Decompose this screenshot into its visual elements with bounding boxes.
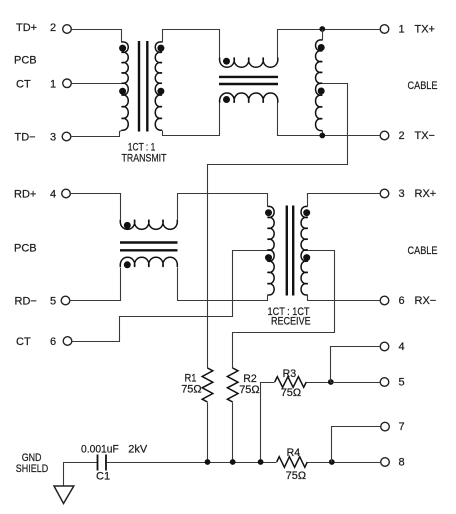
svg-text:TX+: TX+ bbox=[415, 23, 435, 35]
phase dot T1 primary lower bbox=[119, 88, 126, 95]
svg-text:6: 6 bbox=[398, 295, 404, 307]
svg-text:RD+: RD+ bbox=[14, 189, 36, 201]
terminal 1 TX+ bbox=[380, 25, 389, 34]
terminal 2 TX- bbox=[380, 131, 389, 140]
wire T3 secondary bottom to RX- bbox=[308, 296, 381, 301]
junction node R1 on bus bbox=[205, 459, 211, 465]
phase dot T3 primary lower bbox=[265, 254, 272, 261]
svg-text:PCB: PCB bbox=[14, 55, 37, 67]
svg-text:75Ω: 75Ω bbox=[181, 384, 201, 396]
junction node R3 on bus bbox=[258, 459, 264, 465]
svg-text:7: 7 bbox=[398, 421, 404, 433]
svg-text:PCB: PCB bbox=[14, 242, 37, 254]
ground bus bbox=[107, 462, 277, 464]
phase dot T1 secondary lower bbox=[157, 88, 164, 95]
svg-text:75Ω: 75Ω bbox=[286, 470, 306, 482]
svg-text:1: 1 bbox=[50, 79, 56, 91]
terminal 8 cable bbox=[381, 458, 390, 467]
wire RD- to CM2 bottom bbox=[70, 268, 121, 301]
junction node R2 on bus bbox=[230, 459, 236, 465]
svg-text:TD−: TD− bbox=[15, 131, 36, 143]
terminal 5 cable bbox=[380, 378, 389, 387]
terminal 7 cable bbox=[381, 422, 390, 431]
ground symbol bbox=[54, 486, 74, 504]
svg-text:1CT : 1: 1CT : 1 bbox=[128, 141, 156, 153]
phase dot T3 secondary upper bbox=[303, 209, 310, 216]
phase dot T1 primary upper bbox=[119, 45, 126, 52]
wire CM1 top to terminal TX+ bbox=[278, 30, 381, 58]
wire TD+ to T1 primary bbox=[72, 30, 122, 43]
wire R2 bottom to bus bbox=[232, 403, 234, 463]
wire CM2 top to T3 primary top bbox=[178, 194, 268, 220]
svg-text:TX−: TX− bbox=[415, 130, 435, 142]
svg-text:C1: C1 bbox=[96, 470, 110, 482]
transformer T2 lower half bbox=[316, 83, 323, 130]
terminal 4 cable bbox=[380, 342, 389, 351]
svg-text:75Ω: 75Ω bbox=[281, 387, 301, 399]
svg-text:TD+: TD+ bbox=[16, 22, 37, 34]
svg-text:RD−: RD− bbox=[15, 296, 37, 308]
terminal 3 RX+ bbox=[380, 189, 389, 198]
wire T1 secondary top to CM1 bbox=[163, 30, 220, 58]
wire R3 right to junction bbox=[307, 382, 331, 384]
choke CM2 bottom winding bbox=[120, 257, 177, 267]
terminal 3 TD- bbox=[62, 132, 71, 141]
transformer T1 primary upper half bbox=[122, 42, 129, 84]
transformer T2 upper half bbox=[316, 40, 323, 84]
svg-text:1: 1 bbox=[398, 23, 404, 35]
svg-text:CABLE: CABLE bbox=[408, 245, 438, 257]
junction node R3 / pins 4-5 bbox=[328, 379, 334, 385]
choke CM1 bottom winding bbox=[220, 93, 278, 103]
wire R1 bottom to bus bbox=[207, 403, 209, 463]
transformer T3 primary lower half bbox=[267, 250, 274, 295]
svg-text:75Ω: 75Ω bbox=[239, 384, 259, 396]
core T1 bbox=[139, 41, 147, 132]
transformer T3 primary upper half bbox=[267, 206, 274, 250]
wire T2 bottom stub bbox=[322, 131, 324, 136]
junction node TX+ / T2 top bbox=[319, 26, 325, 32]
wire T3 secondary center tap to R2 bbox=[233, 251, 335, 369]
phase dot T2 lower bbox=[318, 88, 325, 95]
svg-text:R1: R1 bbox=[185, 372, 197, 384]
core T3 bbox=[287, 206, 293, 296]
svg-text:CABLE: CABLE bbox=[408, 80, 438, 92]
wire CT to T1 primary center tap bbox=[72, 83, 122, 85]
svg-text:5: 5 bbox=[50, 296, 56, 308]
core CM2 bbox=[120, 243, 178, 251]
wire junction to terminal 4 bbox=[331, 347, 381, 383]
svg-text:RECEIVE: RECEIVE bbox=[271, 316, 311, 328]
terminal 2 TD+ bbox=[63, 25, 72, 34]
svg-text:2: 2 bbox=[50, 22, 56, 34]
phase dot T2 upper bbox=[318, 44, 325, 51]
wire T2 center tap to R1 bbox=[208, 84, 348, 369]
svg-text:RX+: RX+ bbox=[415, 188, 437, 200]
terminal 5 RD- bbox=[61, 296, 70, 305]
svg-text:3: 3 bbox=[398, 188, 404, 200]
wire T3 secondary top to RX+ bbox=[308, 194, 381, 207]
phase dot T3 secondary lower bbox=[303, 254, 310, 261]
resistor R4 bbox=[277, 457, 308, 468]
wire T1 secondary bottom to CM1 bbox=[163, 103, 220, 136]
resistor R3 bbox=[275, 377, 307, 388]
transformer T1 secondary upper half bbox=[155, 42, 162, 84]
terminal 1 CT bbox=[63, 79, 72, 88]
svg-text:5: 5 bbox=[398, 376, 404, 388]
svg-text:CT: CT bbox=[16, 336, 31, 348]
choke CM2 top winding bbox=[120, 220, 177, 230]
svg-text:TRANSMIT: TRANSMIT bbox=[122, 153, 167, 165]
svg-text:RX−: RX− bbox=[415, 295, 437, 307]
transformer T1 secondary lower half bbox=[155, 83, 162, 130]
svg-text:6: 6 bbox=[50, 336, 56, 348]
junction node pins 7-8 bbox=[329, 459, 335, 465]
svg-text:4: 4 bbox=[398, 341, 404, 353]
transformer T3 secondary upper half bbox=[301, 206, 308, 250]
junction node TX- / T2 bottom bbox=[319, 133, 325, 139]
transformer T1 primary lower half bbox=[122, 83, 129, 130]
svg-text:3: 3 bbox=[50, 131, 56, 143]
terminal 6 RX- bbox=[380, 296, 389, 305]
choke CM1 top winding bbox=[220, 58, 278, 68]
phase dot T3 primary upper bbox=[265, 209, 272, 216]
svg-text:8: 8 bbox=[398, 457, 404, 469]
wire CT6 to T3 primary center tap bbox=[72, 251, 268, 342]
svg-text:2kV: 2kV bbox=[128, 443, 148, 455]
phase dot CM2 bottom bbox=[124, 261, 131, 268]
capacitor C1 bbox=[98, 455, 107, 471]
svg-text:SHIELD: SHIELD bbox=[16, 463, 48, 475]
wire R3 left to ground bus bbox=[261, 383, 275, 463]
svg-text:0.001uF: 0.001uF bbox=[81, 443, 119, 455]
wire RD+ to CM2 top bbox=[71, 194, 121, 220]
svg-text:4: 4 bbox=[50, 189, 56, 201]
ground bus right of R4 bbox=[308, 462, 381, 464]
phase dot CM1 top bbox=[223, 58, 230, 65]
core CM1 bbox=[219, 77, 278, 84]
wire terminal 7 to bus bbox=[332, 427, 381, 463]
svg-text:CT: CT bbox=[16, 79, 31, 91]
wire TD- to T1 primary bottom bbox=[71, 131, 122, 137]
wire CM2 bottom to T3 primary bottom bbox=[178, 268, 268, 301]
phase dot CM1 bottom bbox=[223, 96, 230, 103]
terminal 4 RD+ bbox=[62, 189, 71, 198]
resistor R2 bbox=[227, 368, 238, 402]
terminal 6 CT bbox=[63, 337, 72, 346]
wire junction to terminal 5 bbox=[331, 382, 381, 384]
wire CM1 bottom to terminal TX- bbox=[278, 103, 381, 136]
svg-text:2: 2 bbox=[398, 130, 404, 142]
transformer T3 secondary lower half bbox=[301, 250, 308, 295]
resistor R1 bbox=[202, 368, 213, 402]
wire shield to C1 bbox=[64, 463, 98, 487]
wire T2 top stub bbox=[322, 30, 324, 41]
phase dot CM2 top bbox=[124, 222, 131, 229]
phase dot T1 secondary upper bbox=[157, 45, 164, 52]
